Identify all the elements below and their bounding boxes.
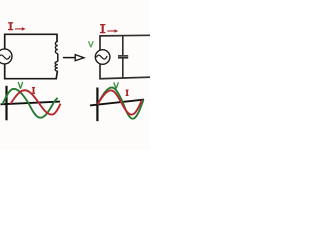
- wire: left circuit top loop (left riser, top run, right riser): [5, 34, 57, 49]
- inductor L1 bottom coil (3 loops): [55, 62, 58, 72]
- wire: inductor middle straight segment: [57, 54, 59, 62]
- arrow: equivalence arrow open head: [75, 55, 84, 61]
- label V (right plot): [114, 82, 119, 88]
- arrow: right circuit current direction: [107, 30, 115, 32]
- wire: left circuit bottom loop (right riser, bottom run, left riser): [5, 64, 58, 79]
- axis: right plot vertical axis: [96, 88, 98, 122]
- sine tilde inside source V2: [96, 55, 107, 59]
- ac source V1 (circle, clipped at image left edge): [0, 49, 12, 64]
- curve: right plot current I red sine (leads slightly): [98, 90, 143, 114]
- axis: left plot vertical axis: [5, 86, 7, 121]
- label I (right plot): [126, 89, 129, 91]
- arrow: equivalence arrow between circuits (tail): [63, 57, 76, 59]
- sine tilde inside source V1: [0, 55, 10, 59]
- label V (left plot): [18, 82, 23, 89]
- ac source V2 circle: [95, 50, 110, 65]
- label I (right circuit current): [100, 24, 105, 26]
- inductor L1 top coil (3 loops): [55, 42, 57, 54]
- curve: right plot voltage V green sine: [98, 87, 144, 118]
- wire: right circuit bottom run: [100, 64, 150, 79]
- label I (left plot): [32, 87, 35, 89]
- capacitor C1 bottom plate: [118, 57, 128, 59]
- label V (right circuit source voltage): [89, 41, 94, 47]
- wire: capacitor C1 top lead: [122, 36, 124, 55]
- label I (left circuit current): [8, 22, 13, 24]
- curve: left plot voltage V green sine: [3, 89, 58, 118]
- capacitor C1 top plate: [118, 55, 128, 57]
- wire: capacitor C1 bottom lead: [122, 59, 124, 79]
- axis: right plot horizontal axis (tilted): [90, 100, 144, 106]
- wire: right circuit top run: [100, 35, 150, 50]
- axis: left plot horizontal axis (slightly tilted): [1, 102, 61, 105]
- curve: left plot current I red sine (lags by ~90 deg): [11, 90, 61, 114]
- arrow: left circuit current direction: [15, 28, 22, 30]
